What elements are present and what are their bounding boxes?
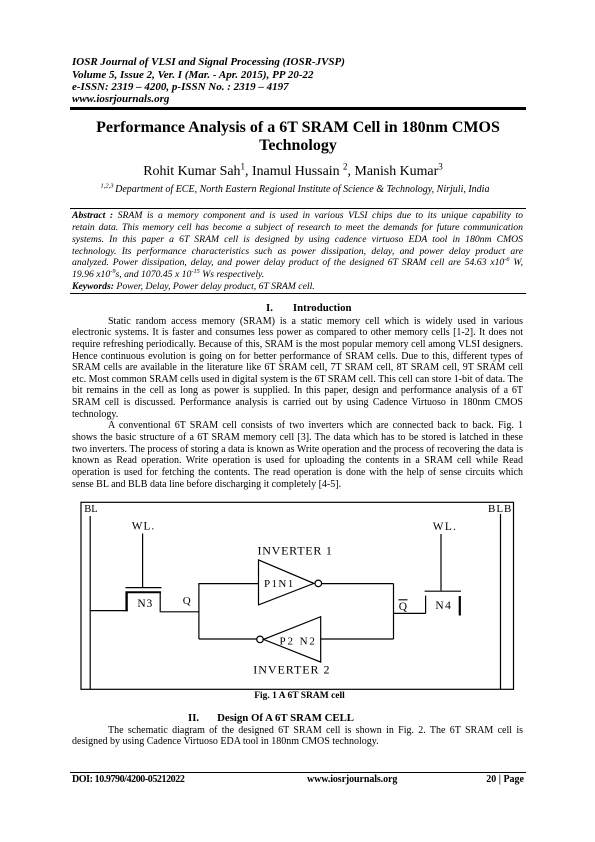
svg-text:BLB: BLB xyxy=(488,503,512,515)
svg-text:P1N1: P1N1 xyxy=(264,578,295,590)
wire Qbar to N4 xyxy=(394,612,426,614)
footer rule xyxy=(70,772,526,773)
figure caption xyxy=(74,691,525,701)
svg-text:N3: N3 xyxy=(137,598,153,610)
wire BLB bit line xyxy=(500,514,502,689)
wire inverter2 input bottom rail xyxy=(199,638,257,640)
node Qbar label xyxy=(399,600,408,613)
journal header block xyxy=(72,56,528,106)
node WL label right xyxy=(433,521,458,533)
svg-text:Q: Q xyxy=(399,601,408,613)
wire inverter2 output to loop right xyxy=(321,638,394,640)
op-amp U2 inverter 2 triangle xyxy=(264,617,321,662)
inverter 2 input bubble xyxy=(257,636,264,643)
inverter 2 label xyxy=(253,663,330,677)
wire WL right xyxy=(440,534,442,591)
transistor N4 label xyxy=(435,600,452,612)
transistor N3 channel xyxy=(126,592,162,612)
footer xyxy=(72,774,524,785)
inverter 2 P2 N2 label xyxy=(280,635,317,647)
transistor N4 source terminal xyxy=(425,596,427,614)
node WL label left xyxy=(132,521,155,533)
svg-text:BL: BL xyxy=(84,504,97,515)
op-amp U1 inverter 1 triangle xyxy=(259,560,314,605)
wire BL bit line xyxy=(89,516,91,689)
header rule xyxy=(70,107,526,109)
transistor N4 gate xyxy=(425,590,461,592)
node BL label xyxy=(84,504,97,515)
transistor N3 gate xyxy=(126,587,162,589)
intro paragraphs xyxy=(72,316,523,491)
svg-text:WL.: WL. xyxy=(132,521,155,533)
inverter 1 output bubble xyxy=(315,580,322,587)
title xyxy=(70,119,526,154)
wire loop right vertical xyxy=(393,584,395,639)
heading II xyxy=(72,712,523,724)
node Q label xyxy=(183,595,191,607)
node BLB label xyxy=(488,503,512,515)
svg-text:INVERTER 1: INVERTER 1 xyxy=(258,544,333,558)
authors xyxy=(65,165,521,179)
svg-text:Q: Q xyxy=(183,595,191,607)
transistor N4 channel bar xyxy=(459,596,461,616)
transistor N3 label xyxy=(137,598,153,610)
inverter 1 P1N1 label xyxy=(264,578,295,590)
figure frame xyxy=(81,502,514,689)
inverter 1 label xyxy=(258,544,333,558)
wire inverter1 output xyxy=(322,583,394,585)
abstract xyxy=(72,210,523,293)
abstract rule xyxy=(70,208,526,209)
wire inverter1 input xyxy=(198,583,258,585)
svg-text:WL.: WL. xyxy=(433,521,458,533)
wire N3 drain to node Q xyxy=(160,611,199,613)
svg-text:P2 N2: P2 N2 xyxy=(280,635,317,647)
heading I xyxy=(72,302,523,314)
svg-text:N4: N4 xyxy=(435,600,452,612)
wire loop left vertical xyxy=(198,584,200,639)
svg-text:INVERTER 2: INVERTER 2 xyxy=(253,663,330,677)
wire WL left xyxy=(142,534,144,588)
affiliation xyxy=(67,185,523,195)
section II paragraph xyxy=(72,725,523,748)
wire BL to N3 source xyxy=(90,610,128,612)
keywords rule xyxy=(70,293,526,294)
